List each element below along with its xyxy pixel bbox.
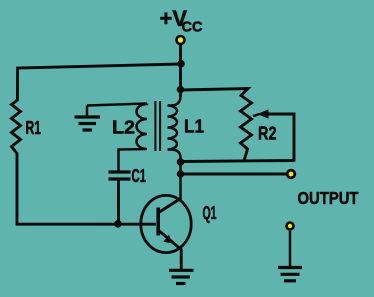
- svg-text:L1: L1: [184, 116, 204, 137]
- svg-text:Q1: Q1: [203, 202, 217, 223]
- svg-text:L2: L2: [112, 117, 135, 138]
- svg-text:OUTPUT: OUTPUT: [298, 188, 359, 208]
- svg-text:CC: CC: [182, 19, 203, 35]
- svg-text:C1: C1: [132, 165, 147, 186]
- svg-text:R2: R2: [258, 123, 277, 144]
- svg-text:R1: R1: [26, 117, 42, 138]
